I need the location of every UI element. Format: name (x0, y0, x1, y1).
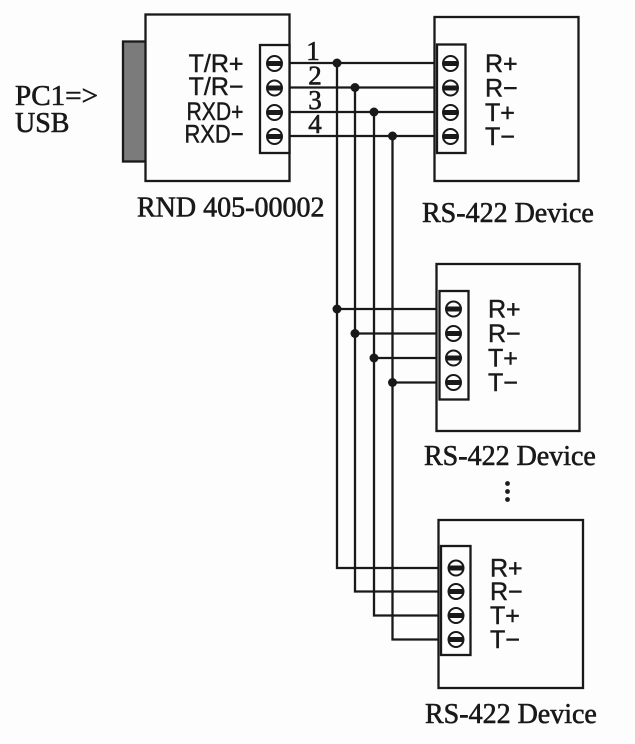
wire 4 vertical drop and bend to bottom device T- (393, 136, 443, 640)
screw pin 3 (RXD+) (267, 105, 282, 120)
svg-text:T/R−: T/R− (189, 73, 244, 101)
wire 3 vertical drop and bend to bottom device T+ (374, 112, 442, 616)
wire 1 branch to middle device R+ (337, 308, 441, 310)
screw pin 2 (T/R-) (267, 81, 282, 96)
screw pin T+ (top device) (443, 105, 458, 120)
svg-text:RS-422 Device: RS-422 Device (425, 699, 597, 730)
svg-text:4: 4 (308, 109, 322, 139)
junction dot wire3 top (370, 108, 379, 117)
screw pin T- (top device) (443, 129, 458, 144)
terminal block (top device) (437, 45, 466, 154)
screw pin T+ (middle device) (446, 351, 461, 366)
svg-text:RS-422 Device: RS-422 Device (424, 441, 596, 472)
svg-text:RS-422 Device: RS-422 Device (422, 198, 594, 229)
screw pin 4 (RXD-) (267, 129, 282, 144)
wire 3 branch to middle device T+ (374, 357, 441, 359)
junction dot wire1 middle (333, 305, 342, 314)
wire 2 horizontal: converter pin2 to top device R- (290, 86, 436, 88)
wire 3 horizontal: converter pin3 to top device T+ (290, 111, 436, 113)
screw pin R+ (middle device) (446, 302, 461, 317)
wire 4 branch to middle device T- (393, 381, 442, 383)
svg-text:RND 405-00002: RND 405-00002 (137, 193, 324, 224)
screw pin R+ (top device) (443, 56, 458, 71)
screw pin R- (bottom device) (448, 584, 463, 599)
RS-422 device box (top) (435, 17, 579, 181)
wire 1 vertical drop and bend to bottom device R+ (337, 63, 442, 568)
RS-422 device box (middle) (437, 264, 580, 431)
screw pin T+ (bottom device) (448, 608, 463, 623)
USB plug (PC side connector) (123, 42, 147, 162)
svg-text:RXD−: RXD− (185, 121, 244, 149)
ellipsis: more devices (505, 481, 510, 502)
screw pin 1 (T/R+) (267, 56, 282, 71)
screw pin T- (middle device) (446, 375, 461, 390)
RS-422 device box (bottom) (439, 520, 584, 688)
screw pin R- (middle device) (446, 326, 461, 341)
junction dot wire2 middle (351, 329, 360, 338)
screw pin R+ (bottom device) (448, 561, 463, 576)
converter box RND 405-00002 (146, 15, 290, 182)
junction dot wire3 middle (370, 354, 379, 363)
wire 1 horizontal: converter pin1 to top device R+ (290, 62, 436, 64)
wire 4 horizontal: converter pin4 to top device T- (290, 135, 436, 137)
junction dot wire4 middle (388, 378, 397, 387)
svg-text:T−: T− (485, 123, 515, 151)
terminal block (middle device) (440, 291, 469, 400)
screw pin R- (top device) (443, 81, 458, 96)
svg-text:T−: T− (488, 369, 518, 397)
screw pin T- (bottom device) (448, 632, 463, 647)
junction dot wire1 top (333, 59, 342, 68)
terminal block (bottom device) (441, 546, 471, 655)
wire 2 branch to middle device R- (355, 332, 441, 334)
converter terminal block (260, 45, 290, 153)
junction dot wire4 top (388, 132, 397, 141)
svg-text:T−: T− (490, 626, 520, 654)
svg-text:USB: USB (15, 108, 69, 139)
junction dot wire2 top (351, 83, 360, 92)
wire 2 vertical drop and bend to bottom device R- (355, 88, 442, 592)
